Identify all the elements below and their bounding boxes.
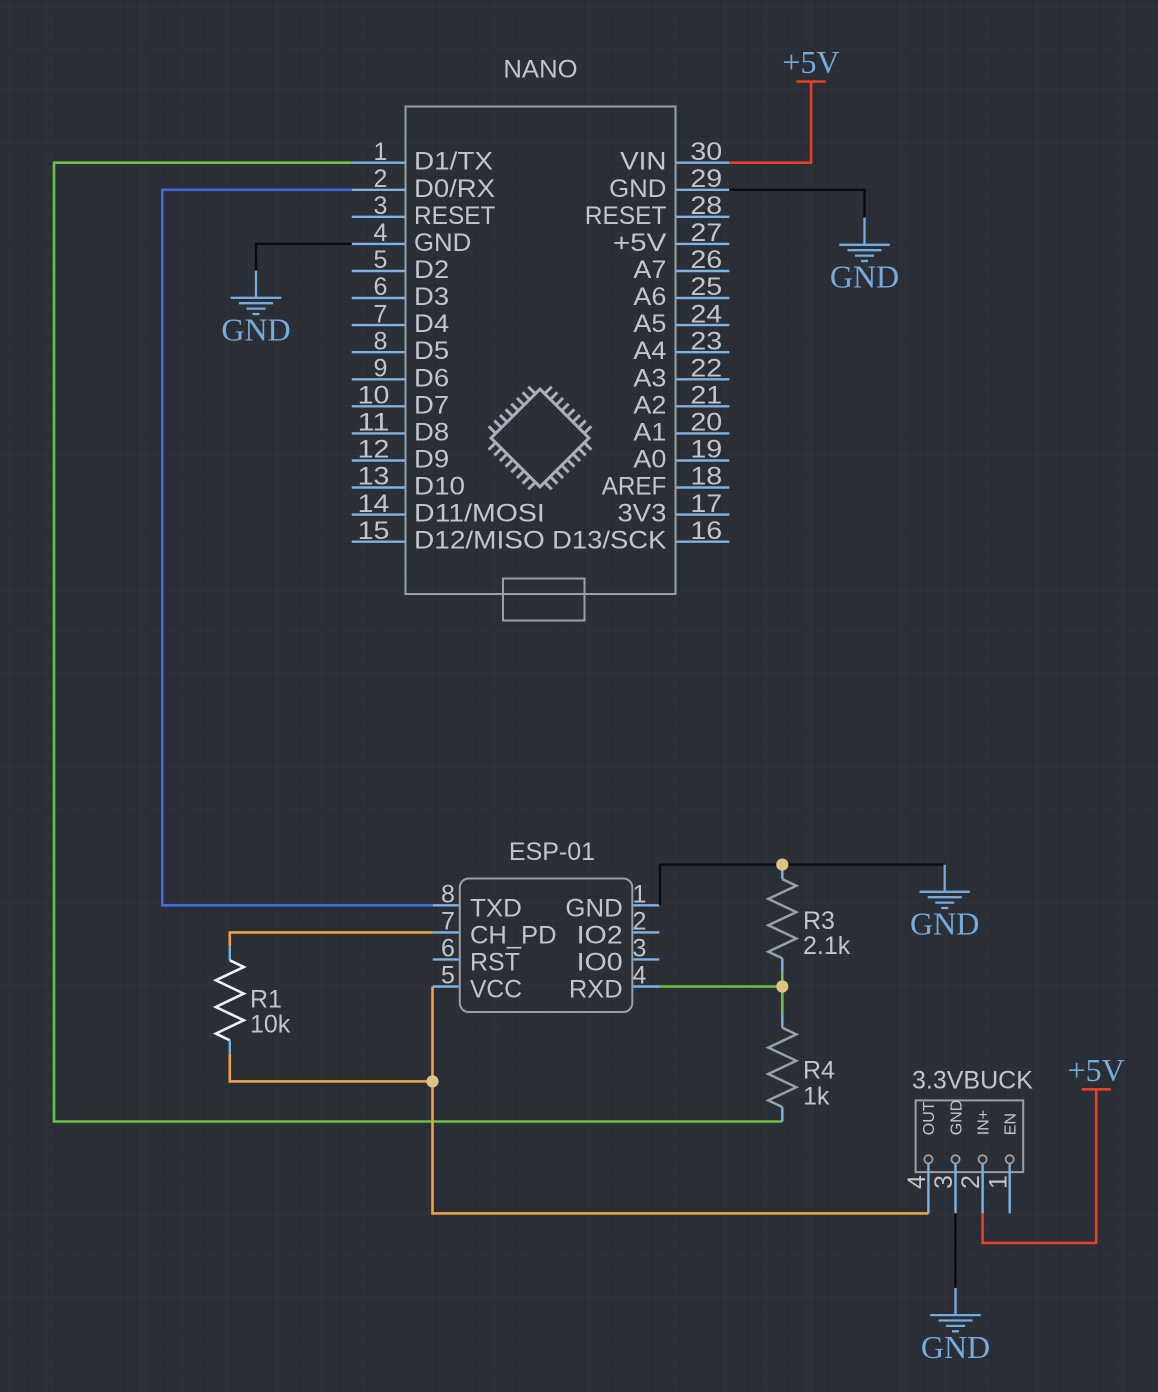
svg-text:OUT: OUT <box>921 1101 938 1135</box>
component 3.3VBUCK body <box>916 1100 1024 1172</box>
svg-text:1k: 1k <box>803 1083 830 1111</box>
svg-text:D2: D2 <box>414 256 449 284</box>
ground GND1 <box>231 271 281 314</box>
NANO pin 3 (RESET) stub <box>352 216 405 218</box>
svg-text:GND: GND <box>830 259 899 295</box>
wire buck GND to ground (black) <box>954 1213 956 1288</box>
svg-text:19: 19 <box>690 436 722 464</box>
NANO pin 18 (AREF) stub <box>677 486 730 488</box>
NANO pin 17 (3V3) stub <box>677 513 730 515</box>
NANO pin 2 (D0/RX) stub <box>352 189 405 191</box>
resistor R1 zigzag body <box>216 960 244 1040</box>
svg-text:GND: GND <box>948 1100 965 1136</box>
svg-text:VIN: VIN <box>620 148 666 176</box>
svg-text:7: 7 <box>374 300 388 328</box>
3.3VBUCK pin 3 name GND <box>948 1100 965 1136</box>
ESP-01 pin 3 (IO0) stub <box>633 958 659 960</box>
wire NANO pin4 GND (black) <box>256 244 352 271</box>
svg-text:GND: GND <box>414 229 471 257</box>
svg-text:16: 16 <box>690 517 722 545</box>
resistor R3 bottom lead <box>781 958 783 973</box>
ESP-01 pin 1 (GND) stub <box>633 904 659 906</box>
svg-text:7: 7 <box>441 908 455 936</box>
svg-text:D10: D10 <box>414 473 465 501</box>
NANO pin 25 (A6) stub <box>677 297 730 299</box>
ground GND2 <box>839 218 889 261</box>
svg-text:RST: RST <box>470 948 520 976</box>
svg-text:D9: D9 <box>414 446 449 474</box>
NANO pin 28 (RESET) stub <box>677 216 730 218</box>
svg-text:A2: A2 <box>633 391 666 419</box>
svg-text:D5: D5 <box>414 337 449 365</box>
ESP-01 pin 6 (RST) stub <box>433 958 459 960</box>
wire junction to buck OUT (orange) <box>433 1081 929 1213</box>
svg-text:IO2: IO2 <box>577 921 623 949</box>
svg-text:20: 20 <box>690 409 722 437</box>
svg-text:+5V: +5V <box>782 44 839 80</box>
svg-text:27: 27 <box>690 219 722 247</box>
NANO pin 24 (A5) stub <box>677 324 730 326</box>
NANO pin 9 (D6) stub <box>352 378 405 380</box>
NANO pin 4 (GND) stub <box>352 243 405 245</box>
svg-text:5: 5 <box>374 246 388 274</box>
3.3VBUCK pin 3 number <box>930 1175 958 1189</box>
NANO pin 14 (D11/MOSI) stub <box>352 513 405 515</box>
svg-text:R4: R4 <box>803 1057 835 1085</box>
component U-NANO body <box>406 107 676 595</box>
NANO pin 27 (+5V) stub <box>677 243 730 245</box>
svg-text:IN+: IN+ <box>975 1110 992 1135</box>
svg-text:A4: A4 <box>633 337 666 365</box>
svg-text:RESET: RESET <box>414 202 496 230</box>
wire D0/RX to ESP TXD (blue) <box>162 190 432 906</box>
wire RXD to divider node (green) <box>659 985 782 988</box>
svg-text:17: 17 <box>690 490 722 518</box>
resistor R1 bottom lead <box>229 1040 231 1053</box>
NANO pin 12 (D9) stub <box>352 459 405 461</box>
ground GND3 <box>920 865 970 908</box>
svg-text:A1: A1 <box>633 418 666 446</box>
svg-text:4: 4 <box>903 1175 931 1189</box>
svg-text:1: 1 <box>374 138 388 166</box>
3.3VBUCK pin 4 number <box>903 1175 931 1189</box>
resistor R1 top lead <box>229 946 231 960</box>
resistor R4 bottom lead <box>781 1107 783 1122</box>
svg-text:13: 13 <box>358 463 390 491</box>
svg-text:12: 12 <box>358 436 390 464</box>
ground GND4 <box>930 1288 980 1331</box>
NANO pin 10 (D7) stub <box>352 405 405 407</box>
3.3VBUCK pin 1 number <box>984 1175 1012 1189</box>
resistor R4 top lead <box>781 1013 783 1028</box>
svg-text:ESP-01: ESP-01 <box>509 838 595 866</box>
NANO pin 1 (D1/TX) stub <box>352 161 405 163</box>
svg-text:22: 22 <box>690 355 722 383</box>
svg-text:VCC: VCC <box>470 976 522 1004</box>
svg-text:21: 21 <box>690 382 722 410</box>
junction node VCC/R1 <box>426 1075 438 1087</box>
NANO pin 15 (D12/MISO) stub <box>352 541 405 543</box>
3.3VBUCK pin 4 circle <box>924 1155 932 1163</box>
NANO pin 22 (A3) stub <box>677 378 730 380</box>
resistor R3 top lead <box>781 865 783 880</box>
svg-text:1: 1 <box>984 1175 1012 1189</box>
wire NANO pin29 GND (black) <box>729 190 864 218</box>
3.3VBUCK pin 3 (GND) stub <box>954 1163 956 1213</box>
svg-text:4: 4 <box>633 962 647 990</box>
NANO pin 26 (A7) stub <box>677 270 730 272</box>
svg-text:R3: R3 <box>803 907 835 935</box>
svg-text:26: 26 <box>690 246 722 274</box>
NANO pin 29 (GND) stub <box>677 189 730 191</box>
svg-text:23: 23 <box>690 327 722 355</box>
wire VCC to junction (orange) <box>431 987 434 1082</box>
svg-text:3: 3 <box>930 1175 958 1189</box>
svg-text:10: 10 <box>358 382 390 410</box>
svg-text:D8: D8 <box>414 418 449 446</box>
svg-text:D13/SCK: D13/SCK <box>552 527 667 555</box>
wire buck IN+ to +5V (red) <box>983 1089 1097 1243</box>
svg-text:GND: GND <box>609 175 666 203</box>
power +5V PWR2 <box>1082 1088 1111 1091</box>
svg-text:NANO: NANO <box>503 56 577 84</box>
3.3VBUCK pin 1 name EN <box>1003 1113 1020 1135</box>
3.3VBUCK pin 4 name OUT <box>921 1101 938 1135</box>
NANO pin 16 (D13/SCK) stub <box>677 541 730 543</box>
svg-text:4: 4 <box>374 219 388 247</box>
3.3VBUCK pin 2 circle <box>979 1155 987 1163</box>
svg-text:9: 9 <box>374 355 388 383</box>
svg-text:25: 25 <box>690 273 722 301</box>
svg-text:D11/MOSI: D11/MOSI <box>414 500 545 528</box>
svg-text:18: 18 <box>690 463 722 491</box>
NANO USB connector rect <box>503 579 585 621</box>
svg-text:R1: R1 <box>250 986 282 1014</box>
svg-text:RXD: RXD <box>569 976 623 1004</box>
svg-text:A0: A0 <box>633 446 666 474</box>
svg-text:2: 2 <box>957 1175 985 1189</box>
NANO pin 23 (A4) stub <box>677 351 730 353</box>
NANO pin 7 (D4) stub <box>352 324 405 326</box>
ESP-01 pin 5 (VCC) stub <box>433 985 459 987</box>
svg-text:2: 2 <box>374 165 388 193</box>
svg-text:RESET: RESET <box>585 202 667 230</box>
svg-text:8: 8 <box>441 881 455 909</box>
wire D1/TX to ESP RXD (green) <box>54 163 782 1122</box>
svg-text:D6: D6 <box>414 364 449 392</box>
svg-text:D4: D4 <box>414 310 449 338</box>
NANO pin 21 (A2) stub <box>677 405 730 407</box>
resistor R3 zigzag body <box>768 879 796 958</box>
svg-text:14: 14 <box>358 490 390 518</box>
ESP-01 pin 4 (RXD) stub <box>633 985 659 987</box>
svg-text:5: 5 <box>441 962 455 990</box>
svg-text:IO0: IO0 <box>577 948 623 976</box>
svg-text:28: 28 <box>690 192 722 220</box>
svg-text:TXD: TXD <box>470 894 522 922</box>
svg-text:D12/MISO: D12/MISO <box>414 527 545 555</box>
3.3VBUCK pin 4 (OUT) stub <box>927 1163 929 1213</box>
3.3VBUCK pin 1 circle <box>1006 1155 1014 1163</box>
resistor R4 zigzag body <box>768 1028 796 1107</box>
svg-text:1: 1 <box>633 881 647 909</box>
wire ESP GND pin1 to ground net (black) <box>660 865 945 906</box>
wire VIN to +5V (red) <box>729 82 811 163</box>
svg-text:30: 30 <box>690 138 722 166</box>
NANO pin 19 (A0) stub <box>677 459 730 461</box>
svg-text:2.1k: 2.1k <box>803 932 851 960</box>
wire R1 bottom to junction (orange) <box>230 1054 433 1082</box>
svg-text:29: 29 <box>690 165 722 193</box>
NANO pin 8 (D5) stub <box>352 351 405 353</box>
svg-text:CH_PD: CH_PD <box>470 921 557 949</box>
svg-text:8: 8 <box>374 327 388 355</box>
3.3VBUCK pin 1 (EN) stub <box>1009 1163 1011 1213</box>
svg-text:3: 3 <box>374 192 388 220</box>
svg-text:D0/RX: D0/RX <box>414 175 495 203</box>
junction node divider mid <box>776 980 788 992</box>
svg-text:6: 6 <box>374 273 388 301</box>
power +5V PWR1 <box>796 80 825 83</box>
svg-text:3V3: 3V3 <box>618 500 667 528</box>
NANO pin 5 (D2) stub <box>352 270 405 272</box>
svg-text:A5: A5 <box>633 310 666 338</box>
svg-text:GND: GND <box>565 894 622 922</box>
wire R3 bottom to R4 top (green) <box>781 973 784 1014</box>
svg-text:3: 3 <box>633 935 647 963</box>
svg-text:10k: 10k <box>250 1011 291 1039</box>
component U-ESP-01 body <box>460 879 633 1013</box>
NANO pin 20 (A1) stub <box>677 432 730 434</box>
svg-text:15: 15 <box>358 517 390 545</box>
wire CH_PD to R1 top (orange) <box>230 932 433 946</box>
3.3VBUCK pin 2 (IN+) stub <box>981 1163 983 1213</box>
svg-text:D3: D3 <box>414 283 449 311</box>
NANO pin 13 (D10) stub <box>352 486 405 488</box>
ESP-01 pin 7 (CH_PD) stub <box>433 931 459 933</box>
svg-text:AREF: AREF <box>602 473 667 501</box>
svg-text:6: 6 <box>441 935 455 963</box>
svg-text:EN: EN <box>1003 1113 1020 1135</box>
NANO pin 6 (D3) stub <box>352 297 405 299</box>
NANO chip icon <box>477 375 603 501</box>
svg-text:3.3VBUCK: 3.3VBUCK <box>912 1067 1033 1095</box>
svg-text:+5V: +5V <box>1068 1052 1125 1088</box>
svg-text:D1/TX: D1/TX <box>414 148 493 176</box>
3.3VBUCK pin 2 number <box>957 1175 985 1189</box>
svg-text:GND: GND <box>221 312 290 348</box>
svg-text:GND: GND <box>910 906 979 942</box>
svg-text:D7: D7 <box>414 391 449 419</box>
ESP-01 pin 8 (TXD) stub <box>433 904 459 906</box>
junction node at ESP GND net <box>776 859 788 871</box>
NANO pin 30 (VIN) stub <box>677 161 730 163</box>
svg-text:A7: A7 <box>633 256 666 284</box>
NANO pin 11 (D8) stub <box>352 432 405 434</box>
3.3VBUCK pin 3 circle <box>951 1155 959 1163</box>
svg-text:GND: GND <box>921 1329 990 1365</box>
3.3VBUCK pin 2 name IN+ <box>975 1110 992 1135</box>
svg-text:A3: A3 <box>633 364 666 392</box>
svg-text:2: 2 <box>633 908 647 936</box>
svg-text:24: 24 <box>690 300 722 328</box>
svg-text:A6: A6 <box>633 283 666 311</box>
svg-text:+5V: +5V <box>613 229 667 257</box>
svg-text:11: 11 <box>358 409 390 437</box>
ESP-01 pin 2 (IO2) stub <box>633 931 659 933</box>
